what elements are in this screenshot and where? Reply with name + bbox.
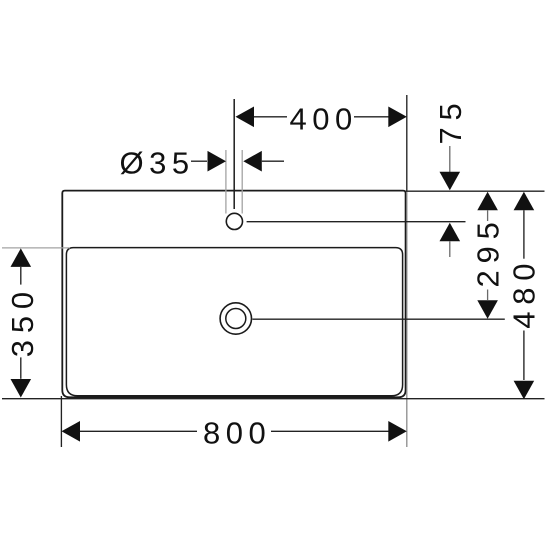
drain extension line to right	[252, 318, 504, 320]
dimension 400 left arrow	[236, 107, 255, 128]
left bottom vertical extension x=61	[60, 396, 62, 447]
dimension 800 right arrow	[388, 421, 407, 442]
dimension 350 connector upper	[20, 267, 22, 285]
faucet centerline extension	[233, 99, 235, 209]
bottom extension line y=399	[2, 398, 545, 400]
dimension 295 up arrow	[477, 192, 498, 211]
right vertical extension line upper	[406, 95, 408, 191]
dimension 350 connector lower	[20, 357, 22, 378]
dimension 480 up arrow	[514, 192, 535, 211]
dimension 400 line	[253, 116, 287, 118]
dimension 75 connector line lower	[449, 241, 451, 257]
svg-text:295: 295	[470, 215, 505, 287]
drain inner ring	[226, 309, 246, 329]
diameter 35 leader line right	[262, 160, 284, 162]
dimension 350 up arrow	[11, 248, 32, 267]
dimension 75 up arrow	[440, 223, 461, 242]
svg-text:Ø35: Ø35	[120, 145, 195, 180]
diameter 35 leader line left	[191, 160, 207, 162]
diameter 35 right-pointing arrow	[208, 151, 227, 172]
dimension 400 right arrow	[388, 107, 407, 128]
basin outer outline	[62, 191, 405, 398]
left extension line y=248	[2, 247, 70, 249]
right vertical extension line lower	[406, 191, 408, 447]
top right extension line y=191	[406, 190, 545, 192]
faucet hole left edge extension line	[225, 150, 227, 214]
svg-text:350: 350	[5, 285, 40, 357]
svg-text:400: 400	[290, 102, 358, 137]
dimension 800 line	[80, 430, 197, 432]
faucet hole right edge extension line	[241, 150, 243, 214]
svg-text:480: 480	[507, 257, 542, 329]
dimension 295 down arrow	[477, 300, 498, 319]
basin inner bowl	[66, 248, 402, 396]
dimension 480 connector lower	[523, 331, 525, 381]
dimension 75 connector line upper	[449, 146, 451, 173]
dimension 480 connector upper	[523, 210, 525, 259]
drain outer ring	[220, 303, 251, 334]
svg-text:800: 800	[203, 416, 271, 451]
dimension 295 connector upper	[487, 210, 489, 221]
dimension 480 down arrow	[514, 381, 535, 400]
dimension 350 down arrow	[11, 379, 32, 398]
dimension 295 connector lower	[487, 290, 489, 301]
diameter 35 left-pointing arrow	[243, 151, 261, 172]
faucet hole	[226, 213, 242, 229]
dimension 800 left arrow	[62, 421, 81, 442]
svg-text:75: 75	[433, 96, 468, 144]
faucet hole extension line to right	[247, 221, 466, 223]
dimension 75 down arrow	[440, 172, 461, 191]
